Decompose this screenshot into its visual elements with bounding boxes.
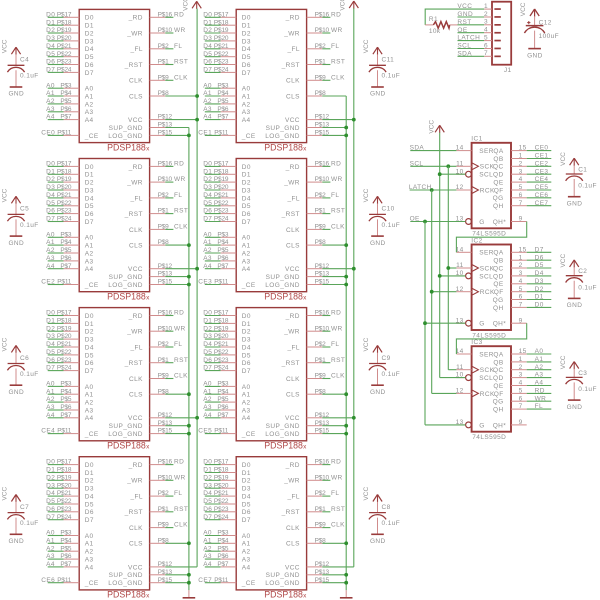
wire C1 top lead: [573, 165, 575, 174]
wire C6 top lead: [15, 353, 17, 364]
svg-text:FL: FL: [174, 43, 182, 50]
U8 pin D0 (P$17): [214, 459, 251, 469]
resistor R1 10k: [425, 16, 457, 35]
IC2 pin RCK (12): [456, 286, 495, 296]
U8 pin CLK (P$9): [286, 522, 326, 532]
svg-text:SUP_GND: SUP_GND: [109, 125, 143, 132]
svg-text:_FL: _FL: [129, 494, 142, 501]
VCC symbol for C11: [363, 39, 382, 55]
svg-text:D7: D7: [46, 67, 55, 74]
svg-text:A2: A2: [85, 549, 94, 556]
svg-text:VCC: VCC: [340, 0, 347, 11]
svg-text:11: 11: [456, 160, 464, 167]
wire net D7 to U8: [205, 519, 221, 521]
U1 pin CLS (P$8): [129, 90, 169, 100]
svg-text:D2: D2: [242, 329, 251, 336]
svg-text:_RST: _RST: [124, 509, 143, 516]
svg-text:D7: D7: [242, 70, 251, 77]
U3 body outline: [79, 308, 149, 441]
svg-text:SCL: SCL: [479, 172, 493, 179]
wire net D2 to U1: [48, 32, 64, 34]
wire LOG_GND net U4: [165, 582, 189, 584]
U7 pin CLS (P$8): [286, 388, 326, 398]
svg-text:D7: D7: [203, 365, 212, 372]
IC3 pin RCK (12): [456, 388, 495, 398]
wire net CE7 from IC1: [527, 205, 552, 207]
wire net RD from U1: [165, 16, 173, 18]
U2 value label PDSP188x: [107, 292, 150, 302]
svg-text:D1: D1: [203, 19, 212, 26]
IC1 pin SCK (11): [456, 160, 494, 170]
svg-text:9: 9: [519, 317, 523, 324]
J1 body outline: [492, 2, 511, 65]
U1 pin _CE (P$11): [57, 130, 99, 140]
wire net D1 to U7: [205, 322, 221, 324]
svg-text:7: 7: [519, 302, 523, 309]
svg-text:6: 6: [484, 42, 488, 49]
U7 pin A2 (P$5): [217, 396, 250, 406]
svg-text:QB: QB: [493, 156, 503, 163]
power symbol VCC (right column rail): [349, 1, 358, 9]
wire net A2 from IC3: [527, 369, 552, 371]
svg-text:R1: R1: [429, 16, 438, 23]
svg-text:D3: D3: [203, 184, 212, 191]
svg-text:D6: D6: [46, 208, 55, 215]
svg-text:_RST: _RST: [281, 211, 300, 218]
wire GND rail right column: [345, 96, 347, 590]
svg-text:A2: A2: [242, 549, 251, 556]
display driver U7 PDSP188x: [198, 308, 345, 451]
wire C9 bottom lead: [377, 369, 379, 386]
svg-text:SER: SER: [479, 250, 494, 257]
svg-text:RD: RD: [331, 11, 341, 18]
wire LOG_GND net U1: [165, 134, 189, 136]
wire net OE to J1 pin 4: [458, 32, 485, 34]
U5 pin CLS (P$8): [286, 90, 326, 100]
U8 pin D7 (P$24): [214, 514, 251, 524]
svg-text:VCC: VCC: [520, 2, 527, 16]
display driver U1 PDSP188x: [41, 9, 188, 152]
svg-text:_FL: _FL: [286, 46, 299, 53]
U5 pin _RST (P$1): [281, 59, 326, 69]
svg-text:0.1uF: 0.1uF: [20, 73, 39, 80]
U8 pin _FL (P$2): [286, 490, 326, 500]
wire C11 top lead: [377, 54, 379, 65]
svg-text:CLK: CLK: [174, 224, 188, 231]
svg-text:A3: A3: [85, 407, 94, 414]
VCC symbol for C5: [2, 188, 21, 204]
svg-text:D3: D3: [85, 486, 94, 493]
svg-text:CLK: CLK: [286, 525, 300, 532]
svg-text:A1: A1: [85, 93, 94, 100]
svg-text:QG: QG: [493, 297, 504, 304]
wire net CE0 to U1: [48, 134, 64, 136]
wire net RD from U5: [322, 16, 330, 18]
wire net RST from U4: [165, 511, 173, 513]
ground symbol for C8: [370, 534, 386, 545]
svg-text:D2: D2: [242, 478, 251, 485]
svg-text:A2: A2: [242, 101, 251, 108]
svg-text:A3: A3: [203, 106, 212, 113]
U4 pin _RD (P$16): [128, 459, 173, 469]
svg-text:A1: A1: [535, 356, 544, 363]
IC1 pin SER (14): [456, 145, 494, 155]
IC1 pin SCL (10): [456, 168, 493, 178]
svg-text:A3: A3: [203, 404, 212, 411]
svg-text:x: x: [146, 444, 150, 451]
IC2 pin SER (14): [456, 246, 494, 256]
wire net A0 to U6: [205, 236, 221, 238]
U1 pin D2 (P$19): [57, 27, 94, 37]
wire net CLK from U7: [322, 378, 330, 380]
U4 pin VCC (P$12): [128, 561, 173, 571]
J1 pin 7 (SDA): [484, 50, 501, 57]
wire net RST from U8: [322, 511, 330, 513]
U2 pin D6 (P$23): [57, 208, 94, 218]
wire net CE0 from IC1: [527, 150, 552, 152]
svg-text:D0: D0: [242, 15, 251, 22]
wire net D7 from IC2: [527, 251, 552, 253]
wire net D7 to U5: [205, 71, 221, 73]
U8 pin A3 (P$6): [217, 553, 250, 563]
svg-text:WR: WR: [331, 325, 343, 332]
svg-text:A4: A4: [242, 564, 251, 571]
IC2 pin QH (7): [493, 302, 527, 312]
wire net D0 to U1: [48, 16, 64, 18]
svg-text:RST: RST: [174, 59, 188, 66]
wire VCC rail right column: [353, 8, 355, 567]
wire cascade QH* IC1 to SER IC2: [456, 222, 526, 253]
svg-text:QF: QF: [494, 289, 504, 296]
svg-text:CE5: CE5: [535, 184, 549, 191]
U6 pin D7 (P$24): [214, 216, 251, 226]
IC2 pin QB (1): [493, 254, 526, 264]
capacitor C10 0.1uF: [369, 206, 400, 229]
U7 pin D2 (P$19): [214, 325, 251, 335]
U2 pin _RD (P$16): [128, 161, 173, 171]
capacitor C11 0.1uF: [369, 57, 400, 80]
wire net A0 to U4: [48, 535, 64, 537]
svg-text:D5: D5: [242, 54, 251, 61]
U7 pin A1 (P$4): [217, 388, 250, 398]
svg-text:G: G: [479, 422, 484, 429]
svg-text:A4: A4: [85, 564, 94, 571]
U6 value label PDSP188x: [264, 292, 307, 302]
U4 pin A0 (P$3): [60, 530, 93, 540]
svg-text:C5: C5: [20, 206, 29, 213]
U6 pin D2 (P$19): [214, 176, 251, 186]
U5 pin D6 (P$23): [214, 59, 251, 69]
svg-text:RST: RST: [331, 59, 345, 66]
wire net A2 to U2: [48, 252, 64, 254]
wire net CE6 to U4: [48, 582, 64, 584]
svg-text:GND: GND: [567, 302, 583, 309]
svg-text:4: 4: [484, 27, 488, 34]
svg-text:A0: A0: [85, 235, 94, 242]
U4 pin SUP_GND (P$13): [109, 569, 173, 579]
svg-text:GND: GND: [370, 91, 386, 98]
svg-text:A2: A2: [242, 400, 251, 407]
svg-text:_RD: _RD: [128, 313, 143, 320]
wire net D2 to U8: [205, 479, 221, 481]
svg-text:FL: FL: [331, 341, 339, 348]
svg-text:A2: A2: [242, 250, 251, 257]
U4 value label PDSP188x: [107, 590, 150, 600]
wire net D3 to U4: [48, 487, 64, 489]
U5 pin A4 (P$7): [217, 114, 250, 124]
U2 pin A1 (P$4): [60, 239, 93, 249]
svg-text:D7: D7: [46, 365, 55, 372]
svg-text:C10: C10: [382, 206, 395, 213]
svg-text:D4: D4: [85, 46, 94, 53]
svg-text:WR: WR: [174, 474, 186, 481]
wire net LATCH to IC1 RCK: [410, 189, 457, 191]
wire LOG_GND net U5: [322, 134, 346, 136]
U3 pin SUP_GND (P$13): [109, 420, 173, 430]
svg-text:_FL: _FL: [129, 195, 142, 202]
U3 pin _WR (P$10): [126, 325, 172, 335]
svg-text:6: 6: [519, 294, 523, 301]
U1 pin A2 (P$5): [60, 98, 93, 108]
U1 pin VCC (P$12): [128, 114, 173, 124]
IC1 pin RCK (12): [456, 184, 495, 194]
wire net D0 to U5: [205, 16, 221, 18]
svg-text:_CE: _CE: [241, 133, 256, 140]
svg-text:RD: RD: [174, 459, 184, 466]
wire net CE7 to U8: [205, 582, 221, 584]
wire SUP_GND net U8: [322, 574, 346, 576]
U3 pin D0 (P$17): [57, 310, 94, 320]
svg-text:RST: RST: [174, 357, 188, 364]
U2 pin A3 (P$6): [60, 255, 93, 265]
svg-text:PDSP188: PDSP188: [107, 441, 146, 451]
U1 pin D4 (P$21): [57, 43, 94, 53]
svg-text:QE: QE: [493, 180, 503, 187]
wire net D0 to U4: [48, 464, 64, 466]
svg-text:PDSP188: PDSP188: [107, 142, 146, 152]
IC1 body outline: [472, 143, 511, 229]
wire net A3 to U4: [48, 558, 64, 560]
wire VCC rail to SCL pins: [439, 133, 441, 378]
wire net D3 to U8: [205, 487, 221, 489]
J1 pin 1 (VCC): [484, 3, 501, 10]
svg-text:A4: A4: [203, 561, 212, 568]
U6 pin A2 (P$5): [217, 247, 250, 257]
svg-text:D3: D3: [242, 337, 251, 344]
svg-text:D5: D5: [203, 51, 212, 58]
U5 pin A1 (P$4): [217, 90, 250, 100]
svg-text:CE4: CE4: [535, 176, 549, 183]
svg-text:FL: FL: [174, 192, 182, 199]
wire net D7 to U3: [48, 370, 64, 372]
svg-text:A2: A2: [85, 400, 94, 407]
wire VCC net U4: [165, 566, 197, 568]
U2 pin LOG_GND (P$15): [108, 279, 172, 289]
svg-text:D6: D6: [85, 360, 94, 367]
wire net WR from IC3: [527, 400, 552, 402]
svg-text:D2: D2: [85, 30, 94, 37]
U6 pin D3 (P$20): [214, 184, 251, 194]
svg-text:6: 6: [519, 192, 523, 199]
U4 pin LOG_GND (P$15): [108, 577, 172, 587]
svg-text:SUP_GND: SUP_GND: [109, 572, 143, 579]
U3 pin VCC (P$12): [128, 412, 173, 422]
wire net FL from IC3: [527, 408, 552, 410]
U4 pin CLS (P$8): [129, 537, 169, 547]
svg-text:VCC: VCC: [363, 487, 370, 501]
svg-text:PDSP188: PDSP188: [107, 292, 146, 302]
wire net D3 to U1: [48, 40, 64, 42]
IC1 pin QH (7): [493, 200, 527, 210]
svg-text:_RD: _RD: [128, 164, 143, 171]
svg-text:D7: D7: [85, 70, 94, 77]
svg-text:C11: C11: [382, 57, 395, 64]
wire OE to IC3 G: [425, 424, 465, 426]
wire net A3 to U6: [205, 260, 221, 262]
display driver U6 PDSP188x: [198, 159, 345, 302]
svg-text:2: 2: [519, 262, 523, 269]
svg-text:D1: D1: [85, 321, 94, 328]
wire LATCH to IC2 RCK: [432, 291, 457, 293]
svg-text:CLS: CLS: [129, 93, 143, 100]
U1 pin _RD (P$16): [128, 11, 173, 21]
svg-text:D0: D0: [46, 459, 55, 466]
wire net D4 from IC2: [527, 275, 552, 277]
svg-text:SCL: SCL: [410, 160, 424, 167]
wire net CE3 to U6: [205, 284, 221, 286]
U1 pin _WR (P$10): [126, 27, 172, 37]
wire net D6 to U2: [48, 213, 64, 215]
ground symbol for C9: [370, 385, 386, 396]
wire net D6 to U6: [205, 213, 221, 215]
svg-text:D0: D0: [242, 313, 251, 320]
wire net RD from IC3: [527, 392, 552, 394]
svg-text:LOG_GND: LOG_GND: [265, 580, 300, 587]
U6 pin VCC (P$12): [285, 263, 330, 273]
svg-text:A1: A1: [242, 93, 251, 100]
svg-text:D4: D4: [46, 43, 55, 50]
U7 pin D7 (P$24): [214, 365, 251, 375]
wire LOG_GND net U2: [165, 284, 189, 286]
svg-text:D7: D7: [242, 517, 251, 524]
svg-text:A4: A4: [85, 415, 94, 422]
svg-text:_FL: _FL: [286, 195, 299, 202]
svg-text:D2: D2: [203, 474, 212, 481]
U1 pin LOG_GND (P$15): [108, 130, 172, 140]
svg-text:D4: D4: [203, 341, 212, 348]
svg-text:D3: D3: [242, 38, 251, 45]
svg-text:_WR: _WR: [283, 329, 300, 336]
svg-text:0.1uF: 0.1uF: [382, 222, 401, 229]
J1 pin 5 (LATCH): [484, 35, 501, 42]
svg-text:PDSP188: PDSP188: [264, 590, 303, 600]
svg-text:A4: A4: [242, 117, 251, 124]
svg-text:D1: D1: [85, 172, 94, 179]
svg-text:A0: A0: [242, 86, 251, 93]
svg-text:A1: A1: [242, 541, 251, 548]
wire net A3 from IC3: [527, 377, 552, 379]
wire net A0 to U8: [205, 535, 221, 537]
IC2 body outline: [472, 245, 511, 331]
wire CLS net U1: [165, 95, 197, 97]
wire net A4 to U4: [48, 566, 64, 568]
wire C4 top lead: [15, 54, 17, 65]
wire net A0 to U2: [48, 236, 64, 238]
wire net D1 to U2: [48, 173, 64, 175]
svg-text:A3: A3: [46, 106, 55, 113]
svg-text:CE7: CE7: [535, 200, 549, 207]
svg-text:D1: D1: [242, 23, 251, 30]
svg-text:A0: A0: [242, 235, 251, 242]
U7 pin D6 (P$23): [214, 357, 251, 367]
IC2 pin SCL (10): [456, 270, 493, 280]
svg-text:D6: D6: [85, 509, 94, 516]
svg-text:CLK: CLK: [286, 78, 300, 85]
IC3 pin QE (4): [493, 380, 526, 390]
svg-text:x: x: [303, 593, 307, 600]
svg-text:G: G: [479, 219, 484, 226]
svg-text:_RST: _RST: [124, 211, 143, 218]
wire CLS net U3: [165, 393, 189, 395]
svg-text:0.1uF: 0.1uF: [382, 73, 401, 80]
svg-text:G: G: [479, 321, 484, 328]
svg-text:RST: RST: [174, 506, 188, 513]
wire net CLK from U6: [322, 228, 330, 230]
U6 pin SUP_GND (P$13): [266, 271, 330, 281]
svg-text:CE2: CE2: [535, 160, 549, 167]
IC3 pin QD (3): [493, 372, 527, 382]
svg-text:SCL: SCL: [457, 43, 471, 50]
wire VCC to R1: [425, 9, 457, 25]
svg-text:LOG_GND: LOG_GND: [108, 431, 143, 438]
svg-text:FL: FL: [174, 341, 182, 348]
svg-text:VCC: VCC: [457, 3, 472, 10]
svg-text:A3: A3: [242, 109, 251, 116]
svg-text:VCC: VCC: [285, 117, 300, 124]
svg-text:FL: FL: [331, 192, 339, 199]
svg-text:WR: WR: [174, 325, 186, 332]
display driver U5 PDSP188x: [198, 9, 345, 152]
power symbol VCC (left column rail): [192, 1, 201, 9]
ground symbol for C10: [370, 236, 386, 247]
wire net A1 to U2: [48, 244, 64, 246]
U3 pin _FL (P$2): [129, 341, 169, 351]
svg-text:D6: D6: [242, 211, 251, 218]
svg-text:PDSP188: PDSP188: [264, 292, 303, 302]
svg-text:CLS: CLS: [286, 93, 300, 100]
svg-text:D0: D0: [85, 164, 94, 171]
wire net SCL to J1 pin 6: [458, 48, 485, 50]
IC1 pin QC (2): [493, 160, 527, 170]
wire VCC net U3: [165, 417, 197, 419]
capacitor C8 0.1uF: [369, 504, 400, 527]
U8 pin A1 (P$4): [217, 537, 250, 547]
svg-text:GND: GND: [567, 404, 583, 411]
wire C10 top lead: [377, 204, 379, 215]
U7 pin _RD (P$16): [285, 310, 330, 320]
svg-text:7: 7: [519, 200, 523, 207]
wire net A1 to U5: [205, 95, 221, 97]
wire VCC net U5: [322, 119, 354, 121]
svg-text:A3: A3: [85, 109, 94, 116]
wire C5 bottom lead: [15, 219, 17, 236]
svg-text:D4: D4: [85, 195, 94, 202]
svg-text:A0: A0: [46, 82, 55, 89]
svg-text:15: 15: [519, 145, 527, 152]
U8 pin D1 (P$18): [214, 467, 251, 477]
svg-text:_CE: _CE: [241, 282, 256, 289]
svg-text:VCC: VCC: [363, 39, 370, 53]
